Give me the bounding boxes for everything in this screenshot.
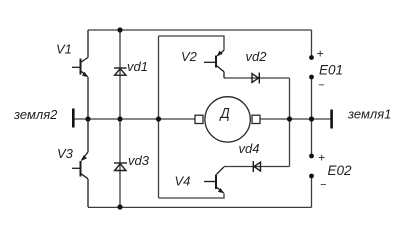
ground bar zemlya2 bbox=[72, 109, 75, 128]
junction dot middle / vd1-vd3 bbox=[117, 116, 122, 121]
terminal dot E02 minus bbox=[309, 174, 314, 179]
svg-text:E01: E01 bbox=[319, 63, 343, 78]
ground bar zemlya1 bbox=[330, 110, 333, 129]
svg-text:vd4: vd4 bbox=[239, 141, 260, 156]
diode vd2 bbox=[252, 73, 259, 84]
wire vd3 branch vertical bbox=[119, 119, 121, 207]
svg-text:Д: Д bbox=[219, 105, 230, 122]
wire vd4 row (V4 collector to right inner vertical) bbox=[224, 166, 290, 168]
junction dot bottom rail / vd3 bbox=[117, 204, 122, 209]
wire inner left vertical bbox=[158, 36, 160, 198]
wire top rail bbox=[88, 29, 312, 31]
wire right column top (top rail to E01 plus) bbox=[311, 30, 313, 56]
transistor V3 (PNP) bbox=[72, 119, 88, 207]
wire vd2 row (V2 collector to right inner vertical) bbox=[224, 77, 290, 79]
wire inner bottom (to V4 emitter) bbox=[159, 193, 225, 198]
transistor V2 (PNP) bbox=[204, 50, 224, 78]
svg-text:−: − bbox=[320, 179, 327, 191]
svg-text:−: − bbox=[318, 80, 325, 92]
wire inner top (to V2 emitter) bbox=[159, 36, 225, 50]
wire middle left (zemlya2 node to motor left terminal) bbox=[75, 118, 196, 120]
junction dot middle / right column bbox=[309, 116, 314, 121]
wire bottom rail bbox=[88, 206, 312, 208]
motor D (circle with terminals) bbox=[195, 97, 260, 142]
svg-text:V1: V1 bbox=[56, 42, 72, 57]
wire right column bottom (E02 minus to bottom rail) bbox=[311, 177, 313, 207]
junction dot middle / V1-V3 bbox=[85, 116, 90, 121]
svg-text:vd1: vd1 bbox=[127, 59, 148, 74]
wire inner right vertical bbox=[289, 78, 291, 167]
junction dot middle / inner left vertical bbox=[156, 116, 161, 121]
svg-text:земля2: земля2 bbox=[13, 107, 58, 122]
svg-text:V4: V4 bbox=[175, 174, 191, 189]
svg-text:E02: E02 bbox=[328, 163, 353, 178]
diode vd1 bbox=[114, 68, 127, 75]
diode vd3 bbox=[114, 163, 127, 171]
transistor V1 (NPN) bbox=[72, 30, 88, 119]
wire middle right (motor right terminal to zemlya1) bbox=[261, 118, 331, 120]
svg-text:+: + bbox=[318, 151, 325, 165]
junction dot top rail / vd1 bbox=[117, 27, 122, 32]
wire right column mid (E01 minus to E02 plus) bbox=[311, 78, 313, 155]
svg-text:V2: V2 bbox=[181, 49, 198, 64]
transistor V4 (NPN) bbox=[204, 167, 224, 194]
terminal dot E02 plus bbox=[309, 154, 314, 159]
wire vd1 branch vertical bbox=[119, 30, 121, 119]
svg-text:V3: V3 bbox=[57, 146, 74, 161]
diode vd4 bbox=[253, 161, 260, 172]
terminal dot E01 minus bbox=[309, 75, 314, 80]
junction dot middle / inner right vertical bbox=[287, 116, 292, 121]
svg-text:земля1: земля1 bbox=[347, 107, 391, 122]
svg-text:vd3: vd3 bbox=[128, 153, 150, 168]
terminal dot E01 plus bbox=[309, 55, 314, 60]
svg-text:vd2: vd2 bbox=[246, 49, 268, 64]
svg-text:+: + bbox=[317, 47, 324, 61]
